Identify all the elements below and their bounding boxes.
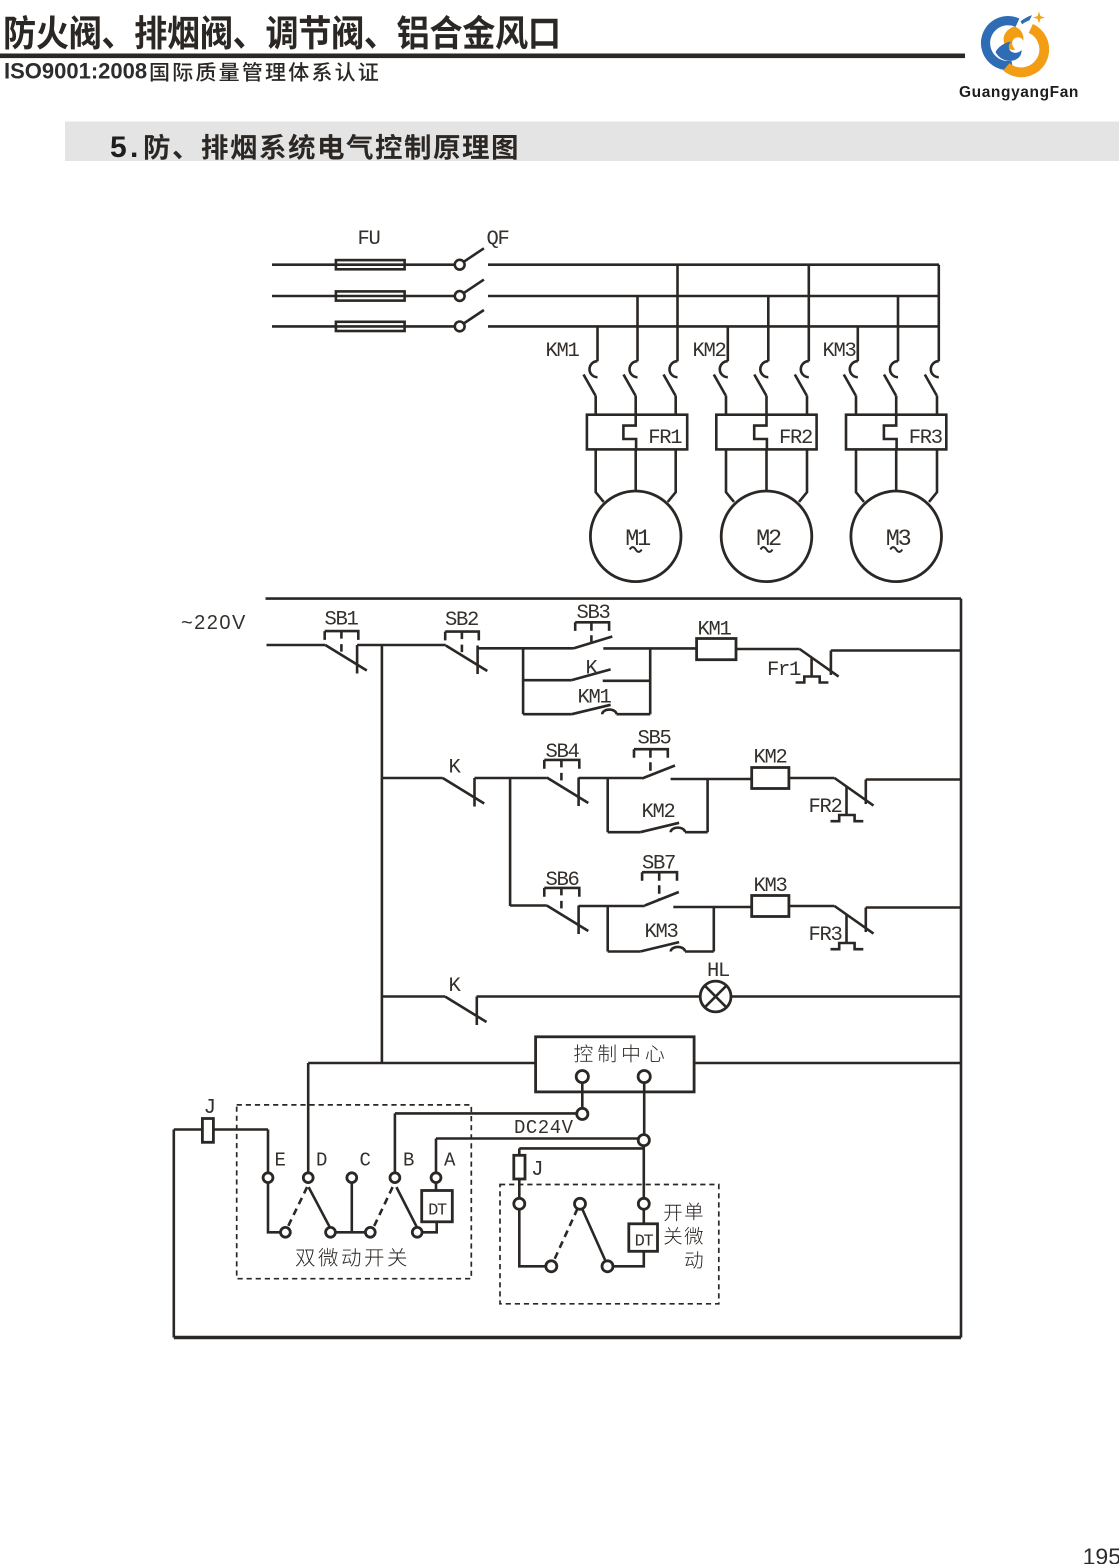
wire SB5 to KM2 coil [671,778,752,781]
text 单 (col2 row1) [685,1202,702,1220]
wire SB1 to SB2 [357,644,446,647]
thermal contact Fr1 (NC) [800,649,839,677]
motor M1 tilde [630,547,642,552]
relay contact K (NC, row2) [443,778,485,804]
wire J2 feed [519,1147,644,1150]
lower contact 1 (dbl microswitch) [281,1227,291,1237]
svg-text:FR3: FR3 [909,427,942,450]
svg-text:SB3: SB3 [577,602,610,625]
svg-text:SB5: SB5 [638,728,671,751]
contact KM1 aux (NO self-hold) [572,705,611,714]
phase wire L2 left [272,295,455,298]
switch blade right (sgl) [582,1209,606,1262]
thermal relay FR2 box [716,415,816,450]
wire right bus [960,599,963,1338]
motor M3 leads [856,449,864,502]
svg-text:SB2: SB2 [445,609,478,632]
wire K to SB4 [475,777,547,780]
svg-text:FR2: FR2 [809,796,842,819]
switch blade B-left (dashed) [373,1187,393,1228]
wire SB2 to SB3 [478,647,574,650]
solenoid DT (dbl microswitch) [422,1191,453,1222]
control centre terminal right [638,1071,650,1083]
thermal relay FR3 box [846,415,946,450]
svg-text:.: . [130,131,138,164]
svg-text:SB7: SB7 [642,853,675,876]
thermal relay FR1 box [587,415,687,450]
text 控制中心 [574,1044,664,1062]
ISO CJK text [151,62,378,82]
junction node DC24V left [577,1108,588,1119]
wire right terminal drop [643,1083,646,1135]
contactor KM3 main pole 2 [897,296,900,361]
breaker QF pole 1 blade [464,248,484,261]
thermal contact FR3 (NC) [835,906,874,934]
contactor KM1 main pole 2 [636,296,639,361]
motor M2 tilde [761,547,773,552]
phase wire L3 left [272,325,455,328]
lower contact right (sgl) [602,1261,613,1272]
contactor KM2 main pole 1 [726,326,729,361]
wire lamp to right bus [731,995,961,998]
fuse FU pole 3 [336,322,405,331]
svg-text:FR3: FR3 [809,924,842,947]
wire FR3 to right bus [866,906,961,909]
wire parallel-group right vertical row1 [649,648,652,714]
fuse FU pole 1 [336,260,405,269]
svg-text:GuangyangFan: GuangyangFan [959,84,1079,101]
FR1 heater element [623,415,636,450]
svg-text:~220V: ~220V [181,612,247,634]
pushbutton SB3 (NO) [573,637,612,649]
FR2 heater element [754,415,767,450]
phase wire L3 right [488,325,939,328]
wire KM2-branch right vertical [706,778,709,832]
lower contact 3 (dbl microswitch) [365,1227,375,1237]
svg-text:195: 195 [1083,1544,1119,1564]
solenoid DT (sgl microswitch) [629,1224,658,1252]
contactor KM2 main pole 3 [807,265,810,362]
wire Fr1 to right bus [831,649,961,652]
terminal DT-side (sgl microswitch) [638,1198,649,1209]
switch blade left (dashed, sgl) [554,1209,578,1262]
svg-text:QF: QF [487,228,509,251]
wire A to DT1 [435,1183,438,1191]
contactor KM1 main pole 3 [676,265,679,362]
svg-text:KM2: KM2 [693,340,726,363]
terminal C [347,1173,357,1183]
relay coil J (left) [202,1119,213,1143]
wire KM1-branch right [617,713,651,716]
svg-text:DT: DT [428,1202,447,1221]
text 微 (col2 row2) [684,1227,702,1245]
pushbutton SB2 (NC) [446,646,488,672]
lamp HL cross [705,986,727,1008]
coil KM3 [752,896,789,917]
wire junction down to DT terminal [642,1146,645,1199]
breaker QF pole 2 blade [464,280,484,294]
relay coil J (DC24V side) [514,1155,525,1179]
wire lower contact to DT2 [613,1251,644,1266]
svg-text:KM1: KM1 [546,340,580,363]
phase wire L2 right [488,295,939,298]
svg-text:A: A [444,1150,456,1172]
svg-text:SB6: SB6 [546,869,579,892]
svg-text:KM3: KM3 [645,921,678,944]
svg-text:KM3: KM3 [754,875,787,898]
wire FR2 to right bus [866,778,961,781]
phase wire L1 right [488,263,939,266]
thermal contact FR2 (NC) [835,778,874,806]
relay contact K (NC, lamp row) [445,997,487,1023]
wire parallel-group left vertical row1 [522,648,525,714]
wire A to junction [436,1137,638,1140]
pushbutton SB4 (NC) [547,778,589,804]
wire lamp row start [382,995,445,998]
wire left riser to bottom line [173,1130,176,1338]
coil KM1 [697,639,736,660]
contactor KM1 main pole 1 [596,326,599,361]
pushbutton SB1 (NC) [325,645,367,671]
wire rail row3 start [510,904,547,907]
wire SB4 to SB5 [579,777,642,780]
terminal D [303,1173,313,1183]
wire rail row1 start to SB1 [267,644,326,647]
terminal J-side (sgl microswitch) [514,1198,525,1209]
wire coil KM2 to FR2 [789,777,835,780]
phase wire L1 left [272,263,455,266]
svg-text:HL: HL [707,960,730,983]
wire E to lower contact 1 [268,1183,281,1233]
header rule [0,54,965,59]
wire SB3 to KM1 coil [603,647,696,650]
svg-text:B: B [403,1150,414,1172]
motor M2 leads [726,449,734,502]
wire coil KM3 to FR3 [789,905,835,908]
control centre box 控制中心 [536,1037,695,1092]
text 双微动开关 [296,1248,407,1267]
pushbutton SB7 (NO) [645,892,679,906]
svg-text:ISO9001:2008: ISO9001:2008 [4,59,147,84]
wire J2 stub [518,1148,521,1155]
wire coil KM1 to Fr1 [736,648,800,651]
wire riser E [267,1130,270,1173]
svg-text:KM2: KM2 [642,801,675,824]
dashed enclosure 双微动开关 [237,1105,472,1279]
wire C stem [350,1183,353,1233]
wire KM1-branch left [523,713,572,716]
FR3 heater element [884,415,897,450]
svg-text:SB1: SB1 [325,609,359,632]
wire KM3-branch right [685,950,714,953]
svg-text:DC24V: DC24V [514,1117,574,1139]
wire KM2-branch right [685,831,708,834]
switch blade B-right [396,1187,417,1228]
contactor KM2 main pole 2 [767,296,770,361]
wire K-branch left [523,679,571,682]
wire KM2-branch left vertical [606,778,609,832]
section title bar [65,122,1119,162]
pushbutton SB6 (NC) [547,906,589,932]
switch blade D-left (dashed) [287,1187,307,1228]
contact KM3 aux (NO self-hold) [640,942,679,951]
wire left terminal drop [581,1083,584,1109]
contact KM2 aux (NO self-hold) [640,823,679,832]
svg-text:FU: FU [358,228,380,251]
terminal common (sgl microswitch) [575,1198,586,1209]
lamp HL [700,981,731,1012]
svg-text:K: K [449,757,462,780]
lower contact left (sgl) [546,1261,557,1272]
svg-text:J: J [204,1097,215,1120]
wire SB6 to SB7 [579,905,645,908]
relay contact K (NO, row1) [571,669,610,680]
wire KM2-branch left [608,831,641,834]
switch blade D-right [309,1187,331,1228]
motor M1 circle [590,491,681,582]
wire KM3-branch right vertical [712,906,715,952]
svg-text:FR1: FR1 [648,427,682,450]
svg-text:SB4: SB4 [546,741,580,764]
wire riser B [394,1113,397,1172]
logo GuangyangFan swirl [986,12,1045,73]
wire KM3-branch left [608,950,641,953]
motor M3 tilde [890,547,902,552]
contactor KM3 main pole 1 [856,326,859,361]
wire J1 to E riser [213,1128,268,1131]
bar title CJK [145,134,517,160]
fuse FU pole 2 [336,291,405,300]
wire bottom line [174,1336,961,1339]
wire J2 to terminal [518,1179,521,1198]
svg-text:E: E [275,1150,286,1172]
wire top border (N feed) [266,597,962,600]
svg-text:K: K [449,975,462,998]
wire J2 terminal to lower contact [519,1209,546,1266]
wire KM3-branch left vertical [606,906,609,952]
pushbutton SB5 (NO) [642,766,675,779]
svg-text:J: J [531,1159,542,1182]
motor M3 circle [851,491,942,582]
terminal A [431,1173,441,1183]
svg-text:C: C [360,1150,371,1172]
text 关 (col1 row2) [664,1227,681,1245]
motor M1 leads [596,449,604,502]
breaker QF pole 2 terminal [455,291,465,301]
motor M2 circle [721,491,812,582]
header title 防火阀、排烟阀、调节阀、铝合金风口 [5,15,557,50]
svg-text:DT: DT [635,1233,654,1252]
wire contact2-contact3 link [335,1231,365,1234]
svg-text:KM1: KM1 [698,619,732,642]
svg-text:KM3: KM3 [823,340,856,363]
wire DT2 terminal stub [642,1209,645,1224]
svg-text:KM2: KM2 [754,747,787,770]
wire K to lamp HL [477,995,701,998]
wire SB7 to KM3 coil [673,906,751,909]
svg-text:FR2: FR2 [779,427,812,450]
wire feed vertical row2-row3 [509,778,512,906]
coil KM2 [752,768,789,789]
svg-text:D: D [316,1150,327,1172]
wire left bus vertical [381,645,384,1063]
svg-text:K: K [586,658,599,681]
breaker QF pole 3 terminal [455,322,465,332]
wire B to junction [395,1112,577,1115]
wire riser D [307,1063,310,1173]
control centre terminal left [576,1071,588,1083]
lower contact 2 (dbl microswitch) [326,1227,336,1237]
contactor KM3 main pole 3 [937,265,940,362]
terminal B [390,1173,400,1183]
lower contact 4 (dbl microswitch) [412,1227,422,1237]
wire K-branch right [603,679,651,682]
svg-text:5: 5 [110,131,127,164]
svg-text:KM1: KM1 [578,687,612,710]
wire riser A [435,1139,438,1173]
terminal E [263,1173,273,1183]
wire rail row2 start [382,777,443,780]
dashed enclosure 单微动开关 [500,1185,719,1304]
wire DT1 to lower contact 4 [422,1222,437,1233]
wire to J1 coil [174,1128,203,1131]
breaker QF pole 3 blade [464,310,484,324]
breaker QF pole 1 terminal [455,260,465,270]
wire neutral mid (left-bus to right-bus) [308,1062,961,1065]
svg-text:Fr1: Fr1 [767,659,801,682]
text 开 (col1 row1) [664,1205,681,1221]
junction node DC24V right [638,1135,649,1146]
text 动 (col2 row3) [685,1251,702,1268]
